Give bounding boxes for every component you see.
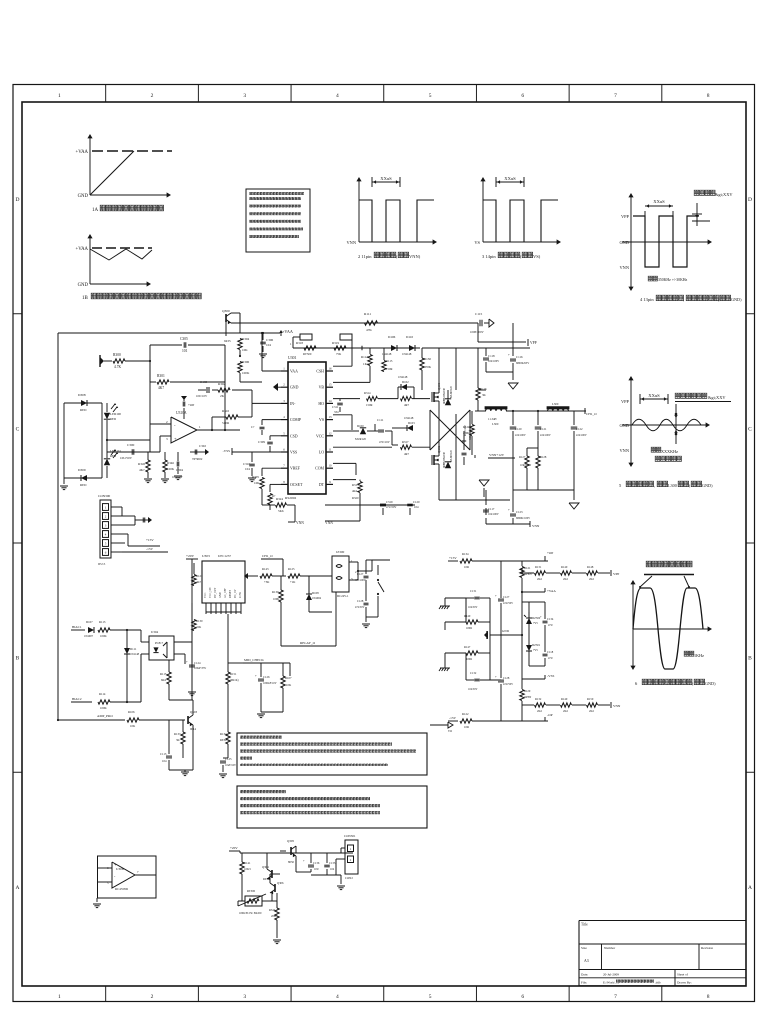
svg-text:VCC: VCC xyxy=(204,592,207,598)
svg-text:3: 3 xyxy=(166,437,168,441)
svg-text:IRFB23N20D: IRFB23N20D xyxy=(443,388,446,404)
svg-text:+: + xyxy=(508,353,510,357)
svg-text:10K3: 10K3 xyxy=(244,867,251,871)
svg-text:OPEN: OPEN xyxy=(524,696,531,699)
svg-text:R120: R120 xyxy=(463,425,470,429)
svg-text:R314: R314 xyxy=(364,391,371,395)
svg-text:R115: R115 xyxy=(386,359,393,363)
svg-text:R115: R115 xyxy=(160,672,167,676)
svg-text:Q304: Q304 xyxy=(262,865,269,869)
svg-text:10U: 10U xyxy=(314,868,319,871)
svg-text:R318: R318 xyxy=(296,341,303,345)
svg-text:5: 5 xyxy=(429,93,432,99)
svg-text:2K2: 2K2 xyxy=(537,577,543,581)
svg-text:100K: 100K xyxy=(273,597,280,601)
svg-text:LED101: LED101 xyxy=(110,449,121,453)
svg-text:-15V: -15V xyxy=(146,547,154,551)
svg-text:D106: D106 xyxy=(388,335,396,339)
svg-text:C126: C126 xyxy=(263,675,270,679)
svg-text:10R: 10R xyxy=(464,725,469,729)
svg-text:4.7K: 4.7K xyxy=(114,365,121,369)
svg-text:3 14pin: 3 14pin xyxy=(482,254,496,259)
svg-text:+: + xyxy=(495,594,497,598)
svg-text:6800K/63V: 6800K/63V xyxy=(516,362,529,365)
svg-text:D: D xyxy=(748,197,752,203)
svg-text:104: 104 xyxy=(266,343,271,347)
svg-text:(: ( xyxy=(396,254,398,259)
svg-text:R319: R319 xyxy=(332,341,339,345)
svg-text:C123: C123 xyxy=(516,510,523,514)
svg-text:C305: C305 xyxy=(180,337,188,341)
svg-text:13: 13 xyxy=(329,415,333,419)
svg-text:150R: 150R xyxy=(366,403,373,407)
svg-text:RS2002: RS2002 xyxy=(285,496,297,500)
svg-text:C128: C128 xyxy=(357,599,364,603)
svg-text:OCSET: OCSET xyxy=(290,483,303,487)
svg-text:L300: L300 xyxy=(552,402,559,406)
svg-text:100R: 100R xyxy=(466,658,472,661)
svg-text:4: 4 xyxy=(283,415,285,419)
svg-text:AC_OFF: AC_OFF xyxy=(224,588,227,598)
svg-text:VPP: VPP xyxy=(613,572,619,576)
svg-text:8: 8 xyxy=(707,994,710,1000)
svg-text:C115: C115 xyxy=(475,312,483,316)
svg-text:2K2: 2K2 xyxy=(563,577,569,581)
svg-text:8: 8 xyxy=(707,93,710,99)
svg-text:.ddb: .ddb xyxy=(655,981,661,985)
svg-text:MUR120: MUR120 xyxy=(355,437,366,441)
svg-text:CON300: CON300 xyxy=(98,494,111,498)
svg-text:Date:: Date: xyxy=(581,973,588,977)
svg-text:R128: R128 xyxy=(540,455,547,459)
svg-text:6K2: 6K2 xyxy=(161,678,167,682)
svg-text:470K: 470K xyxy=(463,431,470,435)
svg-text:Q300: Q300 xyxy=(222,309,230,313)
svg-text:R116: R116 xyxy=(480,387,487,391)
svg-text:R143: R143 xyxy=(262,567,269,571)
svg-text:L300: L300 xyxy=(492,422,499,426)
svg-text:(: ( xyxy=(689,483,691,488)
svg-text:D308: D308 xyxy=(78,393,86,397)
svg-text:472/50V: 472/50V xyxy=(355,606,364,609)
svg-text:1N4148: 1N4148 xyxy=(382,352,392,356)
svg-text:7V5: 7V5 xyxy=(533,649,538,652)
svg-text:100K: 100K xyxy=(100,634,108,638)
svg-text:Title: Title xyxy=(581,923,588,927)
svg-text:10R/0.5W: 10R/0.5W xyxy=(520,464,532,467)
svg-text:1K2: 1K2 xyxy=(363,362,369,366)
svg-text:LED100: LED100 xyxy=(110,412,121,416)
svg-text:COM: COM xyxy=(315,467,324,471)
svg-text:4K7: 4K7 xyxy=(158,386,164,390)
svg-text:1000uF/10V: 1000uF/10V xyxy=(263,682,277,685)
svg-text:C118: C118 xyxy=(488,354,495,358)
svg-text:RED: RED xyxy=(80,483,87,487)
svg-text:CH1_O: CH1_O xyxy=(262,554,273,558)
svg-text:R125: R125 xyxy=(288,567,295,571)
svg-text:1: 1 xyxy=(199,425,201,429)
svg-text:11.3uH: 11.3uH xyxy=(488,417,496,421)
svg-text:,: , xyxy=(683,297,684,303)
svg-text:1: 1 xyxy=(58,93,61,99)
svg-text:GND): GND) xyxy=(705,681,716,686)
svg-text:B: B xyxy=(16,656,20,662)
svg-text:C127: C127 xyxy=(503,595,510,599)
svg-text:2: 2 xyxy=(151,994,154,1000)
svg-text:XXuS: XXuS xyxy=(653,199,665,204)
svg-text:A: A xyxy=(748,885,752,891)
svg-text:GND): GND) xyxy=(702,483,713,488)
svg-text:R127: R127 xyxy=(519,455,526,459)
svg-text:Q303: Q303 xyxy=(190,710,197,714)
svg-text:75K: 75K xyxy=(336,352,342,356)
svg-text:GND: GND xyxy=(619,240,629,245)
svg-text:224/100V: 224/100V xyxy=(540,434,551,437)
svg-text:4R7: 4R7 xyxy=(404,452,410,456)
svg-text:C130: C130 xyxy=(200,380,207,384)
svg-text:104: 104 xyxy=(330,868,335,871)
svg-text:C: C xyxy=(16,426,20,432)
svg-text:MUR8120: MUR8120 xyxy=(450,385,453,398)
svg-text:10K: 10K xyxy=(286,683,292,687)
svg-text:C128: C128 xyxy=(503,676,510,680)
svg-text:5: 5 xyxy=(429,994,432,1000)
svg-text:MID_CHECK: MID_CHECK xyxy=(244,658,264,662)
svg-text:Drawn By:: Drawn By: xyxy=(677,981,692,985)
svg-text:15: 15 xyxy=(329,383,333,387)
svg-text:4: 4 xyxy=(336,93,339,99)
svg-text:VNN: VNN xyxy=(296,521,304,525)
svg-text:RED: RED xyxy=(110,417,117,421)
svg-text:C121: C121 xyxy=(540,427,547,431)
svg-text:C311: C311 xyxy=(332,405,339,409)
svg-text:47U: 47U xyxy=(548,624,553,627)
svg-text:R130: R130 xyxy=(424,357,431,361)
svg-text:COMP: COMP xyxy=(290,418,302,422)
svg-text:+OP: +OP xyxy=(547,551,553,555)
svg-text:47U/16V: 47U/16V xyxy=(379,440,391,444)
svg-text:&gt;XXV: &gt;XXV xyxy=(715,192,733,197)
svg-text:+OP: +OP xyxy=(188,403,194,407)
svg-text:Q306: Q306 xyxy=(277,881,284,885)
svg-text:1: 1 xyxy=(290,342,292,346)
svg-text:100P/100V: 100P/100V xyxy=(470,330,485,334)
svg-text:BIAC1: BIAC1 xyxy=(72,625,82,629)
svg-text:C116: C116 xyxy=(516,355,523,359)
svg-text:&gt;XXV: &gt;XXV xyxy=(708,395,726,400)
svg-text:104/50V: 104/50V xyxy=(468,688,477,691)
svg-text:C136: C136 xyxy=(313,861,320,865)
svg-text:JZ300: JZ300 xyxy=(336,550,345,554)
svg-text:C113: C113 xyxy=(160,752,167,756)
svg-text:100K/B 25C B4450: 100K/B 25C B4450 xyxy=(239,912,262,915)
svg-text:470K: 470K xyxy=(424,365,432,369)
svg-text:7: 7 xyxy=(283,464,285,468)
svg-text:RESET: RESET xyxy=(229,590,232,598)
svg-text:Q305: Q305 xyxy=(287,839,294,843)
svg-text:VPP: VPP xyxy=(621,214,630,219)
svg-text:3K: 3K xyxy=(482,393,487,397)
svg-text:RED: RED xyxy=(110,454,117,458)
svg-text:AMP_PRO: AMP_PRO xyxy=(97,714,113,718)
svg-text:+20V: +20V xyxy=(230,846,238,850)
svg-text:C120: C120 xyxy=(413,500,420,504)
svg-text:R134: R134 xyxy=(462,552,469,556)
svg-text:R345: R345 xyxy=(138,462,145,466)
svg-text:104: 104 xyxy=(162,759,167,763)
svg-text:R324: R324 xyxy=(276,497,283,501)
svg-text:VB: VB xyxy=(319,386,325,390)
svg-text:R129: R129 xyxy=(524,689,531,693)
svg-text:101: 101 xyxy=(182,349,188,353)
svg-text:U30B: U30B xyxy=(116,867,125,871)
svg-text:2K2: 2K2 xyxy=(589,577,595,581)
svg-text:10K: 10K xyxy=(130,724,136,728)
svg-text:CSD: CSD xyxy=(290,434,298,438)
svg-text:LO: LO xyxy=(319,451,324,455)
svg-text:4K2: 4K2 xyxy=(352,489,358,493)
svg-text:C310: C310 xyxy=(243,462,250,466)
svg-text:VNN: VNN xyxy=(325,521,333,525)
svg-text:100K: 100K xyxy=(167,467,175,471)
svg-text:R151: R151 xyxy=(230,672,237,676)
svg-text:6: 6 xyxy=(635,681,638,686)
svg-text:R300: R300 xyxy=(113,353,121,357)
svg-text:2K2: 2K2 xyxy=(589,709,595,713)
svg-text:VNN+12V: VNN+12V xyxy=(489,453,505,457)
svg-text:1N4007: 1N4007 xyxy=(84,635,94,638)
svg-text:D102: D102 xyxy=(402,380,409,384)
svg-text:1: 1 xyxy=(283,367,285,371)
svg-text:+VAA: +VAA xyxy=(282,329,293,334)
svg-text:9435: 9435 xyxy=(224,339,231,343)
svg-text:R141: R141 xyxy=(244,861,251,865)
svg-text:JP2.5: JP2.5 xyxy=(98,562,106,566)
svg-text:1N4004: 1N4004 xyxy=(312,597,322,600)
svg-text:1A: 1A xyxy=(92,208,99,213)
svg-text:MUR8120: MUR8120 xyxy=(450,449,453,462)
svg-text:DC24V-1: DC24V-1 xyxy=(337,594,349,598)
svg-text:R122: R122 xyxy=(462,712,469,716)
svg-text:C302: C302 xyxy=(199,444,206,448)
svg-text:GND: GND xyxy=(619,423,629,428)
svg-text:DC_OV: DC_OV xyxy=(234,589,237,598)
svg-text:R313: R313 xyxy=(352,483,359,487)
svg-text:14: 14 xyxy=(329,399,333,403)
svg-text:+: + xyxy=(303,860,305,863)
svg-text:1B: 1B xyxy=(82,296,89,301)
svg-text:DV_OUT: DV_OUT xyxy=(214,587,217,598)
svg-text:RELAY_O: RELAY_O xyxy=(300,641,316,645)
svg-text:GND: GND xyxy=(502,629,510,633)
svg-text:100K: 100K xyxy=(100,706,108,710)
svg-text:TO: TO xyxy=(448,729,453,733)
svg-text:R107: R107 xyxy=(285,676,292,680)
svg-text:R014: R014 xyxy=(263,877,270,881)
svg-text:1N4148: 1N4148 xyxy=(404,416,414,420)
svg-text:+VAA: +VAA xyxy=(76,150,89,155)
svg-text:R114: R114 xyxy=(99,692,106,696)
svg-text:GND: GND xyxy=(219,592,222,598)
svg-text:3: 3 xyxy=(243,994,246,1000)
svg-text:R131: R131 xyxy=(535,565,542,569)
svg-text:XXuS: XXuS xyxy=(648,393,660,398)
svg-text:XXuS: XXuS xyxy=(504,176,516,181)
svg-text:2K2: 2K2 xyxy=(537,709,543,713)
svg-text:2: 2 xyxy=(283,383,285,387)
svg-text:2: 2 xyxy=(151,93,154,99)
svg-text:22U/50V: 22U/50V xyxy=(503,683,513,686)
svg-text:R112: R112 xyxy=(361,355,368,359)
svg-text:3: 3 xyxy=(283,399,285,403)
svg-text:11: 11 xyxy=(329,448,332,452)
svg-text:1N4148: 1N4148 xyxy=(130,653,140,656)
svg-text:R344: R344 xyxy=(269,908,276,912)
svg-text:C309: C309 xyxy=(258,440,265,444)
svg-text:47U: 47U xyxy=(548,657,553,660)
svg-text:10K: 10K xyxy=(254,481,260,485)
svg-text:C111: C111 xyxy=(377,418,384,422)
svg-text:+1K: +1K xyxy=(290,580,296,584)
svg-text:C131: C131 xyxy=(470,589,477,593)
svg-text:VNN): VNN) xyxy=(409,254,421,259)
svg-text:+VAA: +VAA xyxy=(547,589,556,593)
svg-text:100uF/35V: 100uF/35V xyxy=(194,667,206,670)
svg-text:C300: C300 xyxy=(127,443,135,447)
svg-text:U303: U303 xyxy=(202,554,210,558)
svg-text:-VSS: -VSS xyxy=(223,449,230,453)
svg-text:47K: 47K xyxy=(366,328,372,332)
svg-text:R130: R130 xyxy=(196,619,203,623)
svg-text:CSH: CSH xyxy=(316,370,324,374)
svg-text:3K: 3K xyxy=(176,738,181,742)
svg-text:(: ( xyxy=(692,681,694,686)
svg-text:D107: D107 xyxy=(86,620,93,624)
svg-text:VS): VS) xyxy=(533,254,541,259)
svg-text:6: 6 xyxy=(521,994,524,1000)
svg-text:RV500: RV500 xyxy=(303,352,312,356)
svg-text:R346: R346 xyxy=(167,461,174,465)
svg-text:2K: 2K xyxy=(220,394,225,398)
svg-text:R310: R310 xyxy=(222,409,229,413)
svg-text:5K6: 5K6 xyxy=(278,509,284,513)
svg-text:5: 5 xyxy=(283,431,285,435)
svg-text:R113: R113 xyxy=(99,620,106,624)
svg-text:3: 3 xyxy=(105,524,107,528)
svg-text:R301: R301 xyxy=(157,374,165,378)
svg-text:1: 1 xyxy=(350,847,352,851)
svg-text:6: 6 xyxy=(105,551,107,555)
svg-text:R132: R132 xyxy=(535,697,542,701)
svg-text:D: D xyxy=(16,197,20,203)
svg-text:2K2: 2K2 xyxy=(563,709,569,713)
svg-text:R140: R140 xyxy=(561,565,568,569)
svg-text:CON2: CON2 xyxy=(345,876,353,880)
svg-text:GND): GND) xyxy=(731,297,742,302)
svg-text:Revision: Revision xyxy=(701,946,713,950)
svg-text:R149: R149 xyxy=(561,697,568,701)
svg-text:Number: Number xyxy=(604,946,616,950)
svg-text:104: 104 xyxy=(245,467,250,471)
svg-text:104/100V: 104/100V xyxy=(488,360,499,363)
svg-text:10U/10V: 10U/10V xyxy=(196,394,208,398)
svg-text:U301: U301 xyxy=(288,356,297,360)
svg-text:6: 6 xyxy=(283,448,285,452)
svg-text:VNN: VNN xyxy=(613,704,621,708)
svg-text:5: 5 xyxy=(105,542,107,546)
svg-text:Size: Size xyxy=(581,946,587,950)
svg-text:IRFB23N20D: IRFB23N20D xyxy=(443,452,446,468)
svg-text:TP3002: TP3002 xyxy=(192,457,203,461)
svg-text:C319: C319 xyxy=(386,500,393,504)
svg-text:6800K/100V: 6800K/100V xyxy=(516,517,530,520)
svg-text:CH1_O: CH1_O xyxy=(586,412,597,416)
svg-text:Sheet of: Sheet of xyxy=(677,973,689,977)
svg-text:D309: D309 xyxy=(78,468,86,472)
svg-text:R306: R306 xyxy=(242,360,249,364)
svg-text:R137: R137 xyxy=(174,732,181,736)
svg-text:100R: 100R xyxy=(466,627,472,630)
svg-text:510R: 510R xyxy=(222,421,230,425)
svg-text:VS: VS xyxy=(474,240,480,245)
svg-text:VNN: VNN xyxy=(532,524,540,528)
svg-text:R149: R149 xyxy=(464,614,471,618)
svg-text:C118: C118 xyxy=(547,650,554,654)
svg-text:7V5: 7V5 xyxy=(533,622,538,625)
svg-text:471/100V: 471/100V xyxy=(355,579,366,582)
svg-text:4K7: 4K7 xyxy=(139,468,145,472)
svg-text:2: 2 xyxy=(105,515,107,519)
svg-text:6: 6 xyxy=(521,93,524,99)
svg-text:VCC_ON: VCC_ON xyxy=(209,587,212,598)
svg-text:VREF: VREF xyxy=(290,467,301,471)
svg-text:VNN: VNN xyxy=(619,265,629,270)
svg-text:1: 1 xyxy=(58,994,61,1000)
svg-text:7: 7 xyxy=(614,93,617,99)
svg-text:-OP: -OP xyxy=(547,713,553,717)
svg-text:GND: GND xyxy=(78,283,89,288)
svg-text:8: 8 xyxy=(283,480,285,484)
svg-text:R121: R121 xyxy=(524,566,531,570)
svg-text:+: + xyxy=(540,616,542,619)
svg-text:R148: R148 xyxy=(587,565,594,569)
svg-text:334: 334 xyxy=(334,410,339,414)
svg-text:GND: GND xyxy=(290,386,299,390)
svg-text:C124: C124 xyxy=(194,661,201,665)
svg-text:104/100V: 104/100V xyxy=(488,513,499,516)
svg-text:UPC1237: UPC1237 xyxy=(218,554,231,558)
svg-text:10R: 10R xyxy=(464,565,469,569)
svg-text:C122: C122 xyxy=(576,427,583,431)
svg-text:VNN: VNN xyxy=(346,240,356,245)
svg-text:150R: 150R xyxy=(386,367,393,371)
svg-text:PC817: PC817 xyxy=(155,641,164,645)
svg-text:47U/50V: 47U/50V xyxy=(386,506,396,509)
svg-text:+3K: +3K xyxy=(264,580,270,584)
svg-text:(: ( xyxy=(718,297,720,302)
svg-text:R106: R106 xyxy=(128,710,135,714)
svg-text:U304: U304 xyxy=(151,630,158,634)
svg-text:LOW: LOW xyxy=(239,592,242,598)
svg-text:1N4148: 1N4148 xyxy=(398,375,408,379)
svg-text:+: + xyxy=(495,675,497,679)
svg-text:CON301: CON301 xyxy=(344,834,356,838)
svg-text:4 13pin: 4 13pin xyxy=(640,297,654,302)
svg-text:U310A: U310A xyxy=(176,411,187,415)
svg-text:1: 1 xyxy=(105,506,107,510)
svg-text:R302: R302 xyxy=(218,382,225,386)
svg-text:224/100V: 224/100V xyxy=(515,434,526,437)
